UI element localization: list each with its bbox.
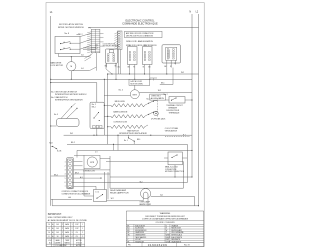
svg-text:A: A xyxy=(52,227,53,230)
svg-text:BR-3: BR-3 xyxy=(75,173,79,175)
svg-text:USE COPPER WIRE ONLY: USE COPPER WIRE ONLY xyxy=(48,217,73,219)
svg-text:4: 4 xyxy=(65,174,66,176)
svg-text:BK: BK xyxy=(164,66,166,68)
svg-text:AWG: AWG xyxy=(65,231,70,234)
svg-text:RELAIS LAMPE FOUR: RELAIS LAMPE FOUR xyxy=(110,191,129,194)
svg-text:DISCONNECT POWER BEFORE SERVIC: DISCONNECT POWER BEFORE SERVICING UNIT xyxy=(145,216,185,218)
svg-text:A L'AIDE SEULEMENT DU FIL DE C: A L'AIDE SEULEMENT DU FIL DE CUIVRE xyxy=(48,219,88,222)
svg-text:7: 7 xyxy=(65,186,66,188)
svg-text:P1: P1 xyxy=(89,28,91,30)
svg-text:CONVECT/CON: CONVECT/CON xyxy=(113,121,127,123)
svg-text:2: 2 xyxy=(65,166,66,168)
svg-text:VENTILATEUR: VENTILATEUR xyxy=(165,129,178,132)
svg-text:W-2: W-2 xyxy=(118,66,121,68)
svg-text:COP: COP xyxy=(75,228,78,230)
svg-text:R: R xyxy=(166,228,168,230)
svg-text:No. 1: No. 1 xyxy=(124,140,128,142)
svg-text:1 0 4: 1 0 4 xyxy=(96,191,100,193)
svg-text:PK: PK xyxy=(127,241,130,243)
svg-text:6: 6 xyxy=(65,182,66,184)
svg-text:INTERRUPTEUR VENTILATEUR: INTERRUPTEUR VENTILATEUR xyxy=(55,98,83,101)
svg-text:MOTEUR VERROU: MOTEUR VERROU xyxy=(103,46,120,48)
svg-text:BLACK/NOIR: BLACK/NOIR xyxy=(135,224,146,227)
svg-text:GY: GY xyxy=(127,232,130,234)
svg-text:L1-L2: L1-L2 xyxy=(48,240,52,242)
svg-text:L1: L1 xyxy=(50,10,53,14)
svg-text:BK-1: BK-1 xyxy=(137,139,141,141)
svg-text:B: B xyxy=(64,48,66,50)
svg-text:N-G: N-G xyxy=(49,242,53,244)
svg-text:1: 1 xyxy=(82,228,83,230)
svg-text:TEMP: TEMP xyxy=(65,240,69,242)
svg-text:O: O xyxy=(166,225,168,227)
svg-text:(P) PROBE JACK: (P) PROBE JACK xyxy=(151,117,166,120)
svg-text:P/N: P/N xyxy=(128,244,131,246)
svg-text:COLORS / COULEURS: COLORS / COULEURS xyxy=(155,222,175,224)
svg-text:No. 5: No. 5 xyxy=(119,89,123,91)
svg-text:W-2: W-2 xyxy=(70,133,73,135)
svg-text:BU: BU xyxy=(148,66,150,68)
svg-text:W-2: W-2 xyxy=(181,72,184,74)
svg-text:A-2: A-2 xyxy=(183,133,186,136)
svg-text:BK-2: BK-2 xyxy=(71,142,75,144)
svg-text:MOTOR LATCH SWITCH: MOTOR LATCH SWITCH xyxy=(59,23,83,26)
svg-text:1: 1 xyxy=(82,224,83,226)
svg-text:w/BK 2: w/BK 2 xyxy=(77,34,83,36)
svg-text:ALLUM. CANON: ALLUM. CANON xyxy=(151,97,164,100)
svg-text:BROIL/GRIL: BROIL/GRIL xyxy=(115,101,125,103)
svg-text:AWG: AWG xyxy=(65,223,70,226)
svg-text:INTERRUPTEUR VENTILATEUR: INTERRUPTEUR VENTILATEUR xyxy=(119,132,147,135)
svg-text:INTERRUPTEUR MOTEUR VERROU: INTERRUPTEUR MOTEUR VERROU xyxy=(55,94,87,96)
svg-text:OVEN LAMP: OVEN LAMP xyxy=(140,201,151,204)
svg-text:BK-5: BK-5 xyxy=(161,82,165,84)
svg-text:W/BK: W/BK xyxy=(166,235,171,237)
svg-text:R: R xyxy=(133,66,135,68)
svg-text:R/W: R/W xyxy=(166,239,170,241)
svg-text:A-3: A-3 xyxy=(80,176,83,179)
svg-text:VIOLET: VIOLET xyxy=(135,239,141,241)
svg-text:BLUE/BLEU: BLUE/BLEU xyxy=(135,228,145,230)
svg-text:M: M xyxy=(70,66,72,68)
svg-text:ORANGE: ORANGE xyxy=(171,224,178,227)
svg-text:MAIN DRIVE: MAIN DRIVE xyxy=(50,61,62,64)
svg-text:L2: L2 xyxy=(196,11,199,13)
svg-text:12: 12 xyxy=(48,228,50,230)
svg-text:No. 8: No. 8 xyxy=(65,33,70,35)
svg-text:8: 8 xyxy=(49,236,50,238)
svg-text:CU: CU xyxy=(76,232,79,234)
svg-text:CONVECT-ION: CONVECT-ION xyxy=(83,171,96,173)
svg-text:2: 2 xyxy=(82,232,83,234)
svg-text:A STYLE: A STYLE xyxy=(76,239,82,242)
svg-text:W-2: W-2 xyxy=(158,90,161,92)
svg-text:W: W xyxy=(115,65,117,67)
svg-text:3: 3 xyxy=(65,170,66,172)
svg-text:GN: GN xyxy=(127,235,130,237)
svg-text:W: W xyxy=(166,230,168,232)
svg-text:A 1 B: A 1 B xyxy=(57,149,62,152)
svg-text:RED/WHITE: RED/WHITE xyxy=(171,239,180,241)
svg-text:DES FILS DE PLUS CONNEXION: DES FILS DE PLUS CONNEXION xyxy=(126,35,154,37)
svg-text:5: 5 xyxy=(65,178,66,180)
svg-text:AWG: AWG xyxy=(65,227,70,230)
svg-text:CONNECTEUR DE LA COMMANDE: CONNECTEUR DE LA COMMANDE xyxy=(62,193,92,196)
svg-text:A 1: A 1 xyxy=(81,67,83,70)
svg-text:90: 90 xyxy=(57,236,59,238)
svg-text:A 2: A 2 xyxy=(81,54,83,57)
svg-text:BU: BU xyxy=(127,228,130,230)
svg-text:3: 3 xyxy=(72,232,73,234)
svg-text:FAN SWITCH: FAN SWITCH xyxy=(127,129,139,132)
svg-text:316046209: 316046209 xyxy=(148,243,168,247)
svg-text:A-4: A-4 xyxy=(69,196,72,199)
svg-text:INTER. MOTEUR VERROU: INTER. MOTEUR VERROU xyxy=(58,27,84,29)
svg-text:No.8: No.8 xyxy=(49,143,52,145)
svg-text:COMMANDE ELECTRON-QUE: COMMANDE ELECTRON-QUE xyxy=(122,23,158,26)
svg-text:4 3: 4 3 xyxy=(95,152,97,154)
svg-text:Rev. B: Rev. B xyxy=(184,244,190,246)
svg-text:BK: BK xyxy=(128,66,130,68)
svg-text:A: A xyxy=(64,41,66,44)
svg-text:IMPORTANT:: IMPORTANT: xyxy=(48,213,62,216)
svg-text:BK-2: BK-2 xyxy=(54,175,58,177)
svg-text:THERMIQUE: THERMIQUE xyxy=(169,112,181,114)
svg-text:W-2: W-2 xyxy=(111,198,114,200)
svg-text:No. 2: No. 2 xyxy=(164,94,168,96)
svg-text:A: A xyxy=(52,223,53,226)
svg-text:V: V xyxy=(127,239,129,241)
svg-text:AWG: AWG xyxy=(65,235,70,238)
svg-text:MTR: MTR xyxy=(133,94,138,96)
svg-text:BAKE/CUISSON: BAKE/CUISSON xyxy=(113,111,128,114)
svg-text:A: A xyxy=(52,231,53,234)
svg-text:No. 3: No. 3 xyxy=(54,114,58,116)
svg-text:LOCK MOTOR: LOCK MOTOR xyxy=(50,65,63,67)
svg-text:105: 105 xyxy=(56,232,59,234)
svg-text:105: 105 xyxy=(56,224,59,226)
svg-text:10: 10 xyxy=(48,232,50,234)
svg-text:14: 14 xyxy=(48,224,50,226)
svg-text:RED/ROUGE: RED/ROUGE xyxy=(171,228,181,230)
svg-text:BK: BK xyxy=(127,225,130,227)
svg-text:COP: COP xyxy=(75,224,78,226)
svg-text:WARNING: WARNING xyxy=(160,212,171,215)
svg-text:Y: Y xyxy=(166,232,168,234)
svg-text:PINK/ROSE: PINK/ROSE xyxy=(135,241,144,243)
svg-text:GREEN/VERT: GREEN/VERT xyxy=(135,235,145,237)
svg-text:A: A xyxy=(52,235,53,238)
svg-text:DWELL FOR L BAKE ELEVATION: DWELL FOR L BAKE ELEVATION xyxy=(126,40,153,43)
svg-text:MTR: MTR xyxy=(90,162,95,164)
svg-text:2: 2 xyxy=(72,228,73,230)
svg-text:W: W xyxy=(170,66,172,68)
svg-text:105: 105 xyxy=(56,228,59,230)
svg-text:BK/W: BK/W xyxy=(166,237,171,239)
svg-text:GAGE: GAGE xyxy=(55,239,59,242)
svg-text:BR: BR xyxy=(127,230,130,232)
svg-text:BROWN/BRUN: BROWN/BRUN xyxy=(135,230,147,232)
svg-text:A-1: A-1 xyxy=(160,194,163,197)
svg-text:N: N xyxy=(189,11,191,13)
svg-text:MOTOR DRNN: MOTOR DRNN xyxy=(131,83,144,85)
svg-text:1: 1 xyxy=(72,224,73,226)
svg-text:1: 1 xyxy=(65,161,66,163)
svg-text:BK-1: BK-1 xyxy=(92,106,96,108)
svg-text:T: T xyxy=(127,237,128,239)
